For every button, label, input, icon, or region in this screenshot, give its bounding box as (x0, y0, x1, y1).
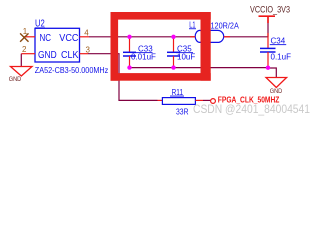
wire pin2 to ground (20, 54, 22, 67)
svg-text:4: 4 (84, 28, 89, 37)
power symbol VCCIO_3V3 (259, 16, 276, 23)
pin 3 (CLK) (80, 53, 89, 55)
capacitor C35 plates (167, 52, 180, 56)
wire R11 to port (203, 99, 210, 101)
svg-text:ZA52-CB3-50.000MHz: ZA52-CB3-50.000MHz (35, 65, 109, 75)
ground symbol right (266, 78, 287, 88)
wire C34 to ground jog (268, 68, 276, 78)
wire pin3 to R11 (88, 54, 158, 101)
resistor R11 body (162, 98, 195, 105)
resistor R11 pin left (158, 99, 163, 101)
svg-text:GND: GND (38, 50, 57, 61)
svg-text:CLK: CLK (61, 50, 79, 61)
capacitor C33 lead top (129, 37, 131, 53)
capacitor C33 lead bottom (129, 56, 131, 68)
svg-text:2: 2 (22, 45, 27, 54)
no-connect X on pin 1 (20, 33, 28, 41)
svg-text:VCCIO_3V3: VCCIO_3V3 (250, 4, 290, 14)
ferrite bead L1 body (195, 30, 224, 42)
svg-text:0.1uF: 0.1uF (271, 53, 292, 62)
C33 designator (132, 45, 154, 54)
capacitor C34 plates (260, 48, 276, 52)
U2 pin names (38, 33, 79, 61)
capacitor C35 lead top (173, 37, 175, 53)
pin 4 (VCC) (80, 36, 90, 38)
svg-text:C34: C34 (271, 36, 286, 45)
junction dot C33 bottom (127, 65, 131, 69)
svg-text:10uF: 10uF (177, 52, 195, 61)
C34 designator (270, 36, 286, 45)
R11 designator (170, 88, 184, 97)
capacitor C35 lead bottom (173, 56, 175, 68)
ground symbol left (11, 67, 33, 77)
capacitor C34 lead bottom (267, 52, 269, 68)
capacitor C33 plates (123, 52, 136, 56)
pin 1 (NC) (24, 36, 35, 38)
svg-text:VCC: VCC (59, 33, 78, 44)
junction dot C33 top (127, 35, 131, 39)
svg-text:NC: NC (40, 33, 52, 44)
L1 pin left (190, 36, 195, 38)
svg-text:FPGA_CLK_50MHZ: FPGA_CLK_50MHZ (218, 96, 280, 105)
junction dot C35 bottom (171, 65, 175, 69)
wire top rail VCC (89, 36, 268, 38)
L1 designator (189, 21, 196, 30)
oscillator U2 body (35, 28, 80, 62)
C35 designator (176, 45, 193, 54)
port circle FPGA_CLK_50MHZ (211, 99, 216, 104)
junction dot C34 bottom (266, 66, 270, 70)
svg-text:GND: GND (9, 77, 22, 83)
svg-text:120R/2A: 120R/2A (211, 22, 240, 31)
svg-text:L1: L1 (189, 21, 196, 30)
L1 pin right (224, 36, 230, 38)
highlight rectangle (111, 12, 211, 81)
svg-text:0.01uF: 0.01uF (131, 52, 156, 61)
resistor R11 pin right (195, 99, 203, 101)
svg-text:3: 3 (86, 46, 91, 55)
svg-text:33R: 33R (176, 107, 189, 116)
junction dot C35 top (171, 35, 175, 39)
oscillator U2 designator (35, 19, 45, 30)
pin 2 (GND) (21, 53, 35, 55)
svg-text:GND: GND (270, 89, 283, 95)
wire power VCCIO down (267, 23, 269, 37)
capacitor C34 lead top (267, 33, 269, 48)
wire bottom rail (130, 67, 269, 69)
